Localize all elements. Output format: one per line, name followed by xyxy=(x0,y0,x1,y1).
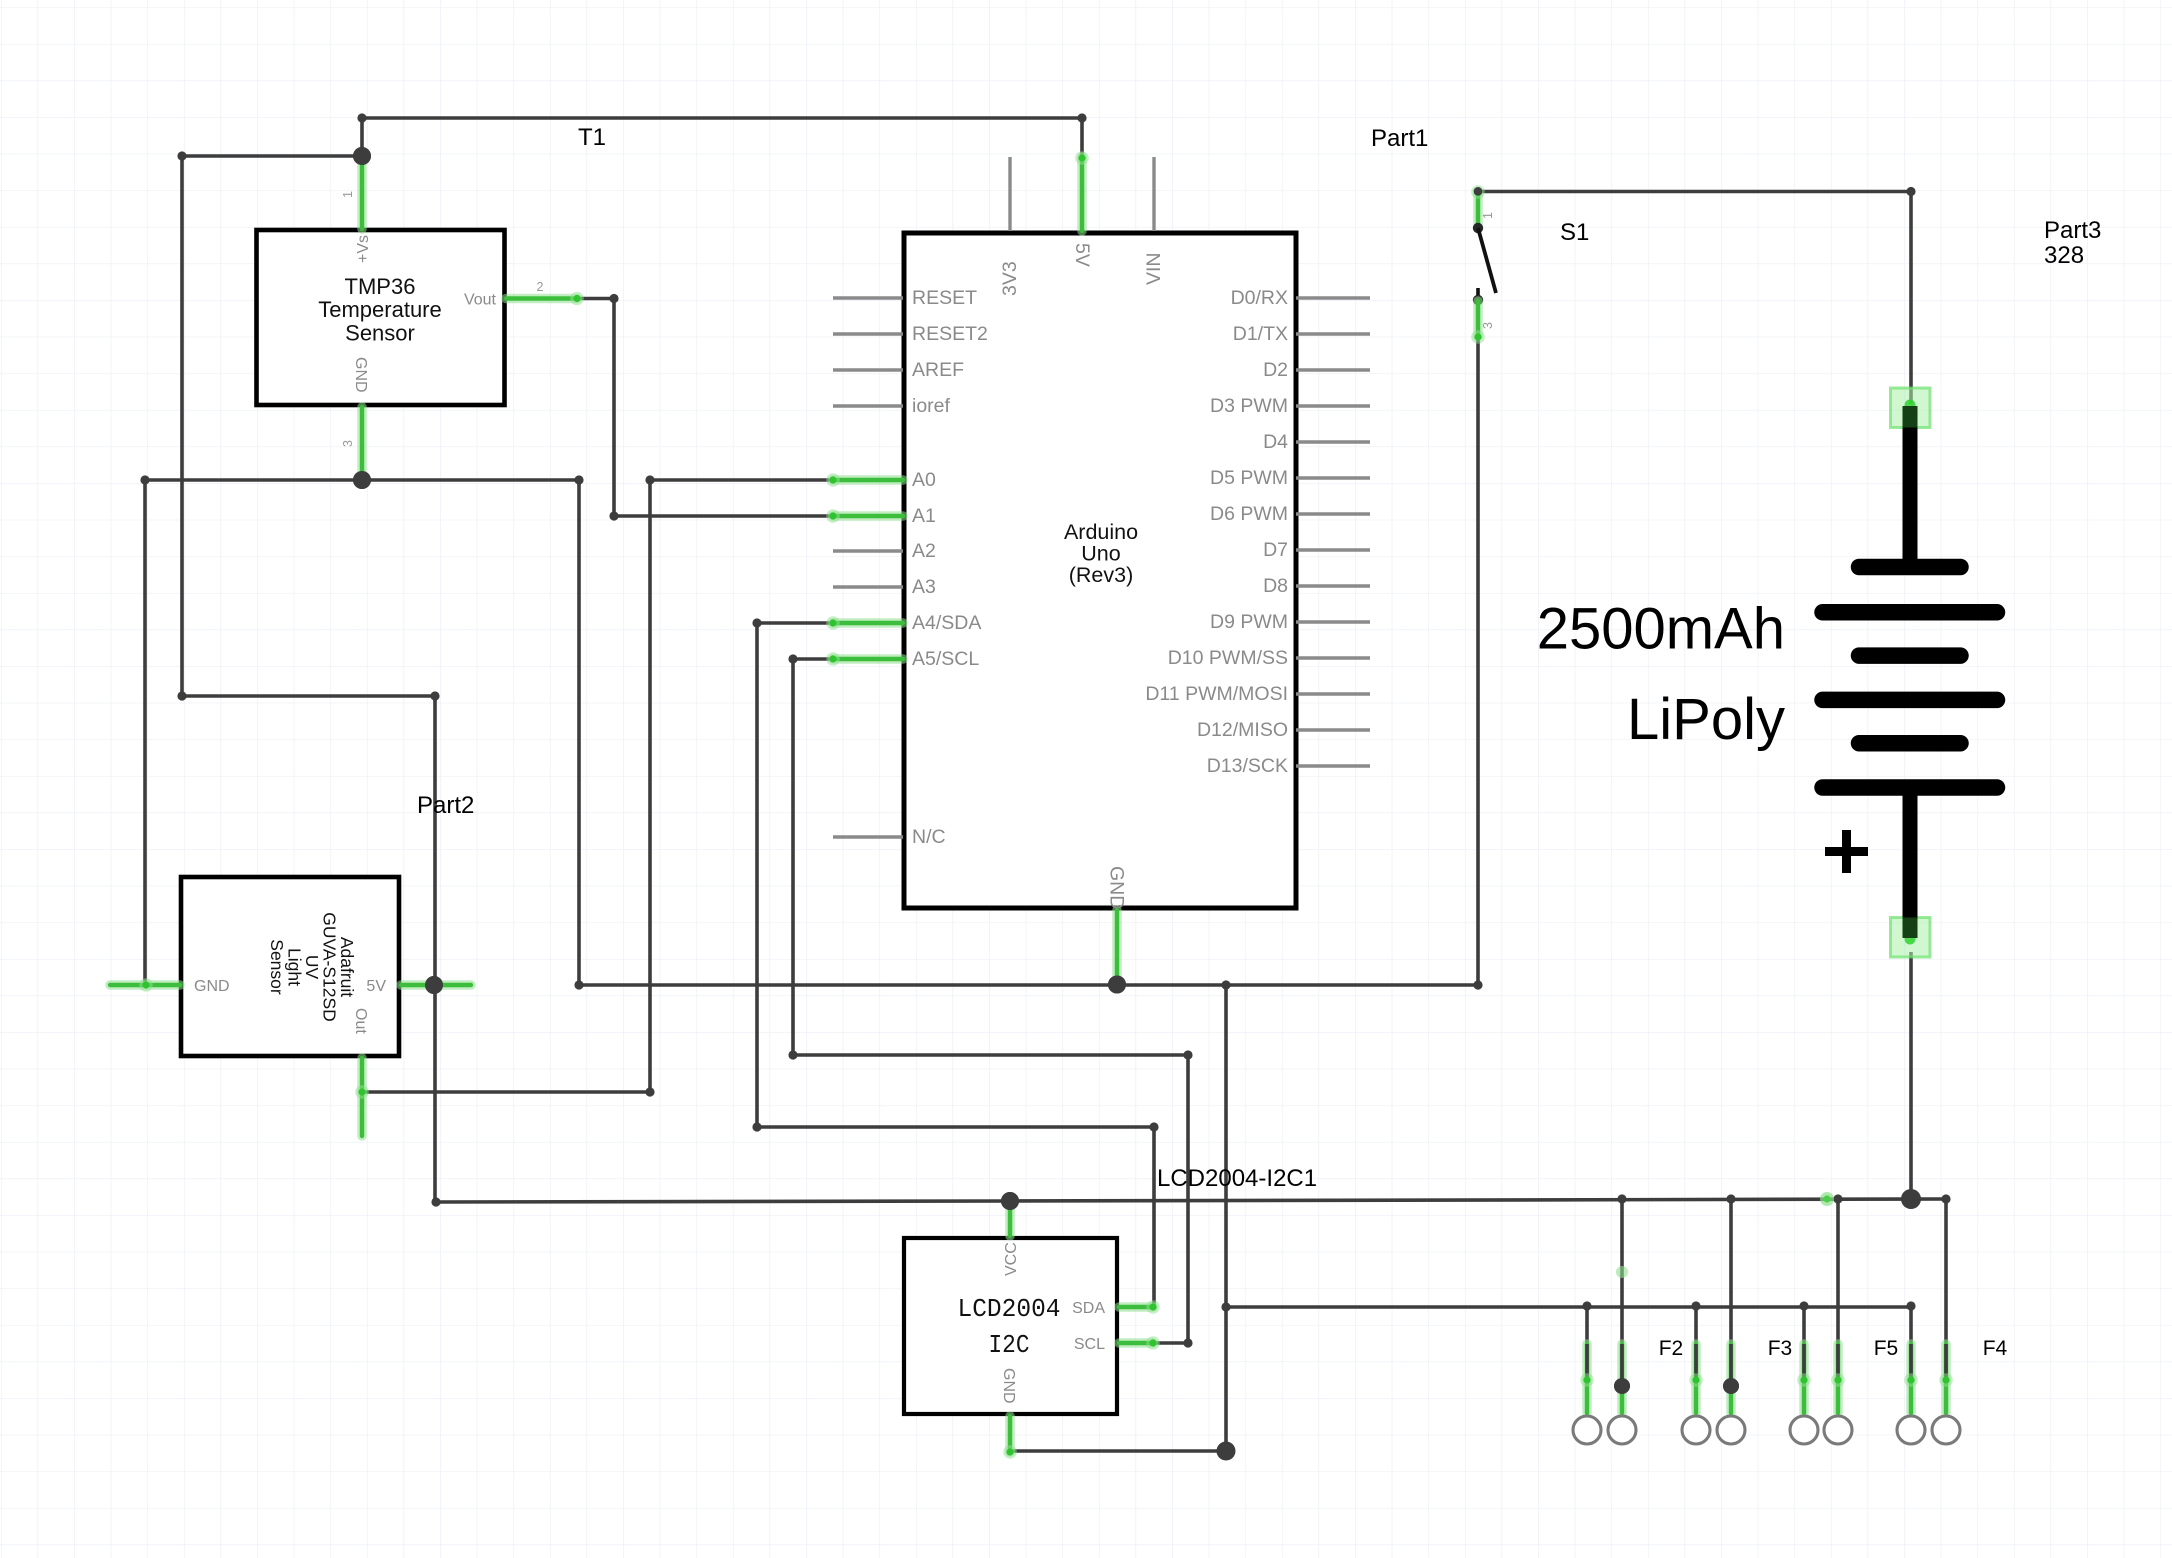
header pin stubs (green) xyxy=(1582,1344,1592,1413)
svg-text:GND: GND xyxy=(194,978,230,995)
svg-text:I2C: I2C xyxy=(989,1330,1030,1360)
junction: header F2 pin 2 wire joint xyxy=(1614,1378,1630,1394)
wire 5V net: vertical trunk through UV sensor 5V junction down to power rail xyxy=(433,696,437,1202)
svg-text:D7: D7 xyxy=(1263,539,1288,561)
wire GND row drop to header F3 pin 1 xyxy=(1694,1306,1698,1381)
pin 5V of Part1 xyxy=(1077,157,1087,231)
svg-text:F3: F3 xyxy=(1768,1337,1793,1360)
junction: header F3 pin 2 wire joint xyxy=(1723,1378,1739,1394)
battery terminal connector square bottom xyxy=(1891,918,1931,958)
svg-text:5V: 5V xyxy=(1071,243,1093,267)
junction dot on header F3 pin 2 xyxy=(1723,1378,1739,1394)
svg-text:LCD2004-I2C1: LCD2004-I2C1 xyxy=(1157,1165,1317,1192)
UV light sensor Part2 body (Adafruit GUVA-S12SD) xyxy=(181,877,399,1056)
wire GND net: TMP36 GND row horizontal xyxy=(145,478,579,482)
bendpoint dots xyxy=(177,151,186,160)
battery plus sign xyxy=(1825,830,1868,873)
svg-text:3: 3 xyxy=(1481,322,1495,329)
svg-text:Sensor: Sensor xyxy=(345,320,415,345)
svg-text:2: 2 xyxy=(537,280,544,294)
svg-text:VIN: VIN xyxy=(1143,252,1165,285)
pin 2 (Vout) of T1 xyxy=(506,294,577,304)
svg-text:A4/SDA: A4/SDA xyxy=(912,612,981,634)
pin GND of LCD2004-I2C1 xyxy=(1005,1416,1015,1452)
svg-text:N/C: N/C xyxy=(912,826,946,848)
Arduino Uno Part1 body xyxy=(904,233,1296,908)
pin A0 of Part1 xyxy=(833,475,903,485)
battery terminal connector square top xyxy=(1891,388,1931,428)
wire 5V rail drop to header F4 pin 2 xyxy=(1944,1199,1948,1381)
green wire joint on F2 pin2 drop xyxy=(1616,1266,1628,1278)
svg-text:GND: GND xyxy=(352,357,369,393)
svg-text:ioref: ioref xyxy=(912,395,951,417)
svg-text:1: 1 xyxy=(341,191,355,198)
svg-text:D2: D2 xyxy=(1263,359,1288,381)
svg-text:D5 PWM: D5 PWM xyxy=(1210,467,1288,489)
svg-text:Uno: Uno xyxy=(1081,542,1120,566)
battery Part3 negative terminal lead xyxy=(1903,406,1918,567)
svg-text:1: 1 xyxy=(1481,212,1495,219)
right pins of Part1 (D0-D13) xyxy=(1296,296,1370,299)
wire GND net: drop x1226 from GND bus to LCD GND row xyxy=(1224,985,1228,1451)
junction: GND of T1 with GND row xyxy=(353,471,371,489)
wire 5V rail drop to header F3 pin 2 xyxy=(1729,1199,1733,1386)
pin A1 of Part1 xyxy=(833,511,903,521)
svg-text:D3 PWM: D3 PWM xyxy=(1210,395,1288,417)
svg-text:S1: S1 xyxy=(1560,219,1589,246)
svg-text:A2: A2 xyxy=(912,540,936,562)
svg-text:F2: F2 xyxy=(1659,1337,1684,1360)
battery positive terminal lead xyxy=(1903,788,1918,939)
pin A5/SCL of Part1 xyxy=(833,654,903,664)
switch S1 lever xyxy=(1478,228,1496,293)
svg-text:LiPoly: LiPoly xyxy=(1627,687,1785,752)
wire 5V rail drop to header F2 pin 2 xyxy=(1620,1199,1624,1386)
svg-text:Out: Out xyxy=(352,1008,369,1034)
junction: LCD VCC pin with 5V power rail xyxy=(1001,1192,1019,1210)
green wire end caps on header pins xyxy=(1580,1373,1594,1387)
svg-text:Temperature: Temperature xyxy=(318,297,442,322)
wire switch S1 pin3 branch up from GND bus xyxy=(1476,337,1480,985)
svg-text:D1/TX: D1/TX xyxy=(1233,323,1288,345)
junction dot on header F2 pin 2 xyxy=(1614,1378,1630,1394)
junction: LCD GND row corner xyxy=(1217,1442,1236,1461)
pin 3 (GND) of T1 xyxy=(357,407,367,478)
junction: +Vs of T1 with 5V net xyxy=(353,147,371,165)
wire 5V net: left drop from (182,156) down to corner and right to vertical trunk xyxy=(182,156,435,696)
junction dot overlays on green pins xyxy=(353,147,371,165)
svg-text:D0/RX: D0/RX xyxy=(1231,287,1288,309)
svg-text:AREF: AREF xyxy=(912,359,964,381)
svg-text:TMP36: TMP36 xyxy=(345,274,416,299)
svg-text:A0: A0 xyxy=(912,469,936,491)
svg-text:RESET2: RESET2 xyxy=(912,323,988,345)
svg-text:Arduino: Arduino xyxy=(1064,520,1138,544)
junction: UV sensor 5V pin with vertical trunk xyxy=(425,976,443,994)
svg-text:F5: F5 xyxy=(1874,1337,1899,1360)
svg-text:SDA: SDA xyxy=(1072,1300,1105,1317)
wire battery negative: switch pin1 across and down to battery terminal xyxy=(1478,192,1911,405)
svg-text:3: 3 xyxy=(341,440,355,447)
svg-text:D8: D8 xyxy=(1263,575,1288,597)
svg-text:A1: A1 xyxy=(912,505,936,527)
svg-text:GND: GND xyxy=(1106,866,1128,909)
dark wire overlays on header pin stubs xyxy=(1585,1344,1589,1380)
svg-text:SCL: SCL xyxy=(1074,1336,1105,1353)
svg-text:RESET: RESET xyxy=(912,287,977,309)
svg-text:D11 PWM/MOSI: D11 PWM/MOSI xyxy=(1145,683,1288,705)
temperature sensor T1 body (TMP36) xyxy=(257,230,505,405)
svg-text:328: 328 xyxy=(2044,242,2084,269)
svg-text:Vout: Vout xyxy=(464,292,497,309)
switch S1 pin 3 contact xyxy=(1476,288,1480,300)
pin SDA of LCD2004-I2C1 xyxy=(1119,1302,1153,1312)
svg-text:(Rev3): (Rev3) xyxy=(1069,563,1134,587)
svg-text:2500mAh: 2500mAh xyxy=(1537,597,1785,662)
wire Arduino A5/SCL down to SCL row xyxy=(793,659,1188,1343)
svg-text:Part2: Part2 xyxy=(417,792,474,819)
header pin rings F2 F3 F5 F4 xyxy=(1573,1416,1601,1444)
svg-text:F4: F4 xyxy=(1983,1337,2008,1360)
svg-text:Part1: Part1 xyxy=(1371,125,1428,152)
wire GND row drop to header F2 pin 1 xyxy=(1585,1306,1589,1381)
svg-text:D13/SCK: D13/SCK xyxy=(1207,755,1288,777)
wire GND net: left drop to UV sensor GND pin xyxy=(143,480,147,983)
svg-text:D9 PWM: D9 PWM xyxy=(1210,611,1288,633)
pin SCL of LCD2004-I2C1 xyxy=(1119,1338,1153,1348)
wire 5V power rail horizontal to far right xyxy=(435,1199,1946,1202)
switch S1 pin 1 xyxy=(1473,193,1483,227)
pin 1 (+Vs) of T1 xyxy=(357,158,367,229)
svg-text:+Vs: +Vs xyxy=(355,235,372,263)
svg-text:GND: GND xyxy=(1000,1368,1017,1404)
wire GND distribution row y1307 to headers xyxy=(1226,1305,1911,1309)
pin VIN of Part1 xyxy=(1152,157,1155,231)
wire Arduino A0 to UV sensor Out xyxy=(362,480,833,1092)
svg-text:LCD2004: LCD2004 xyxy=(958,1294,1061,1324)
pin GND of Part1 (bottom) xyxy=(1112,910,1122,983)
LCD module LCD2004-I2C1 body xyxy=(904,1238,1117,1414)
wire Arduino A4/SDA to LCD SDA xyxy=(757,623,1154,1307)
svg-text:A3: A3 xyxy=(912,576,936,598)
battery plates xyxy=(1859,559,1961,576)
junction: battery positive with 5V power rail xyxy=(1901,1189,1921,1209)
svg-text:5V: 5V xyxy=(366,978,386,995)
svg-text:A5/SCL: A5/SCL xyxy=(912,648,979,670)
wire GND net: LCD GND row horizontal xyxy=(1011,1449,1226,1453)
wire battery positive terminal down to 5V power rail xyxy=(1909,952,1913,1199)
wire LCD SCL link segment xyxy=(1153,1341,1188,1345)
pin 5V of Part2 xyxy=(401,980,471,990)
wire T1 Vout to Arduino A1 xyxy=(577,299,833,517)
wire 5V rail drop to header F4 pin 1 xyxy=(1836,1199,1840,1381)
unconnected left pins of Part1 xyxy=(833,296,903,299)
wire GND net: vertical x579 down to GND bus xyxy=(577,480,581,985)
junction: Arduino GND pin with GND bus xyxy=(1108,976,1126,994)
pin VCC of LCD2004-I2C1 xyxy=(1005,1204,1015,1236)
wire GND row drop to header F5 pin 1 xyxy=(1802,1306,1806,1381)
pin Out of Part2 xyxy=(357,1058,367,1136)
svg-text:Part3: Part3 xyxy=(2044,217,2101,244)
svg-text:D6 PWM: D6 PWM xyxy=(1210,503,1288,525)
svg-text:D4: D4 xyxy=(1263,431,1288,453)
wire 5V net: left segment to TMP36 +Vs junction xyxy=(182,154,362,158)
pin 3V3 of Part1 xyxy=(1008,157,1011,231)
green wire joint on 5V rail xyxy=(1820,1192,1834,1206)
svg-text:D12/MISO: D12/MISO xyxy=(1197,719,1288,741)
pin A4/SDA of Part1 xyxy=(833,618,903,628)
wire GND row drop to header F5 pin 2 xyxy=(1909,1307,1913,1381)
wire GND bus horizontal y985 to switch branch xyxy=(579,983,1478,987)
svg-text:Sensor: Sensor xyxy=(267,939,287,995)
switch S1 pin 3 xyxy=(1473,301,1483,336)
pin GND of Part2 xyxy=(110,980,180,990)
svg-text:T1: T1 xyxy=(578,124,606,151)
wire 5V net: +Vs junction up and across to Arduino 5V pin xyxy=(362,118,1082,162)
svg-text:3V3: 3V3 xyxy=(999,261,1021,296)
svg-text:VCC: VCC xyxy=(1003,1242,1020,1276)
svg-text:D10 PWM/SS: D10 PWM/SS xyxy=(1168,647,1288,669)
